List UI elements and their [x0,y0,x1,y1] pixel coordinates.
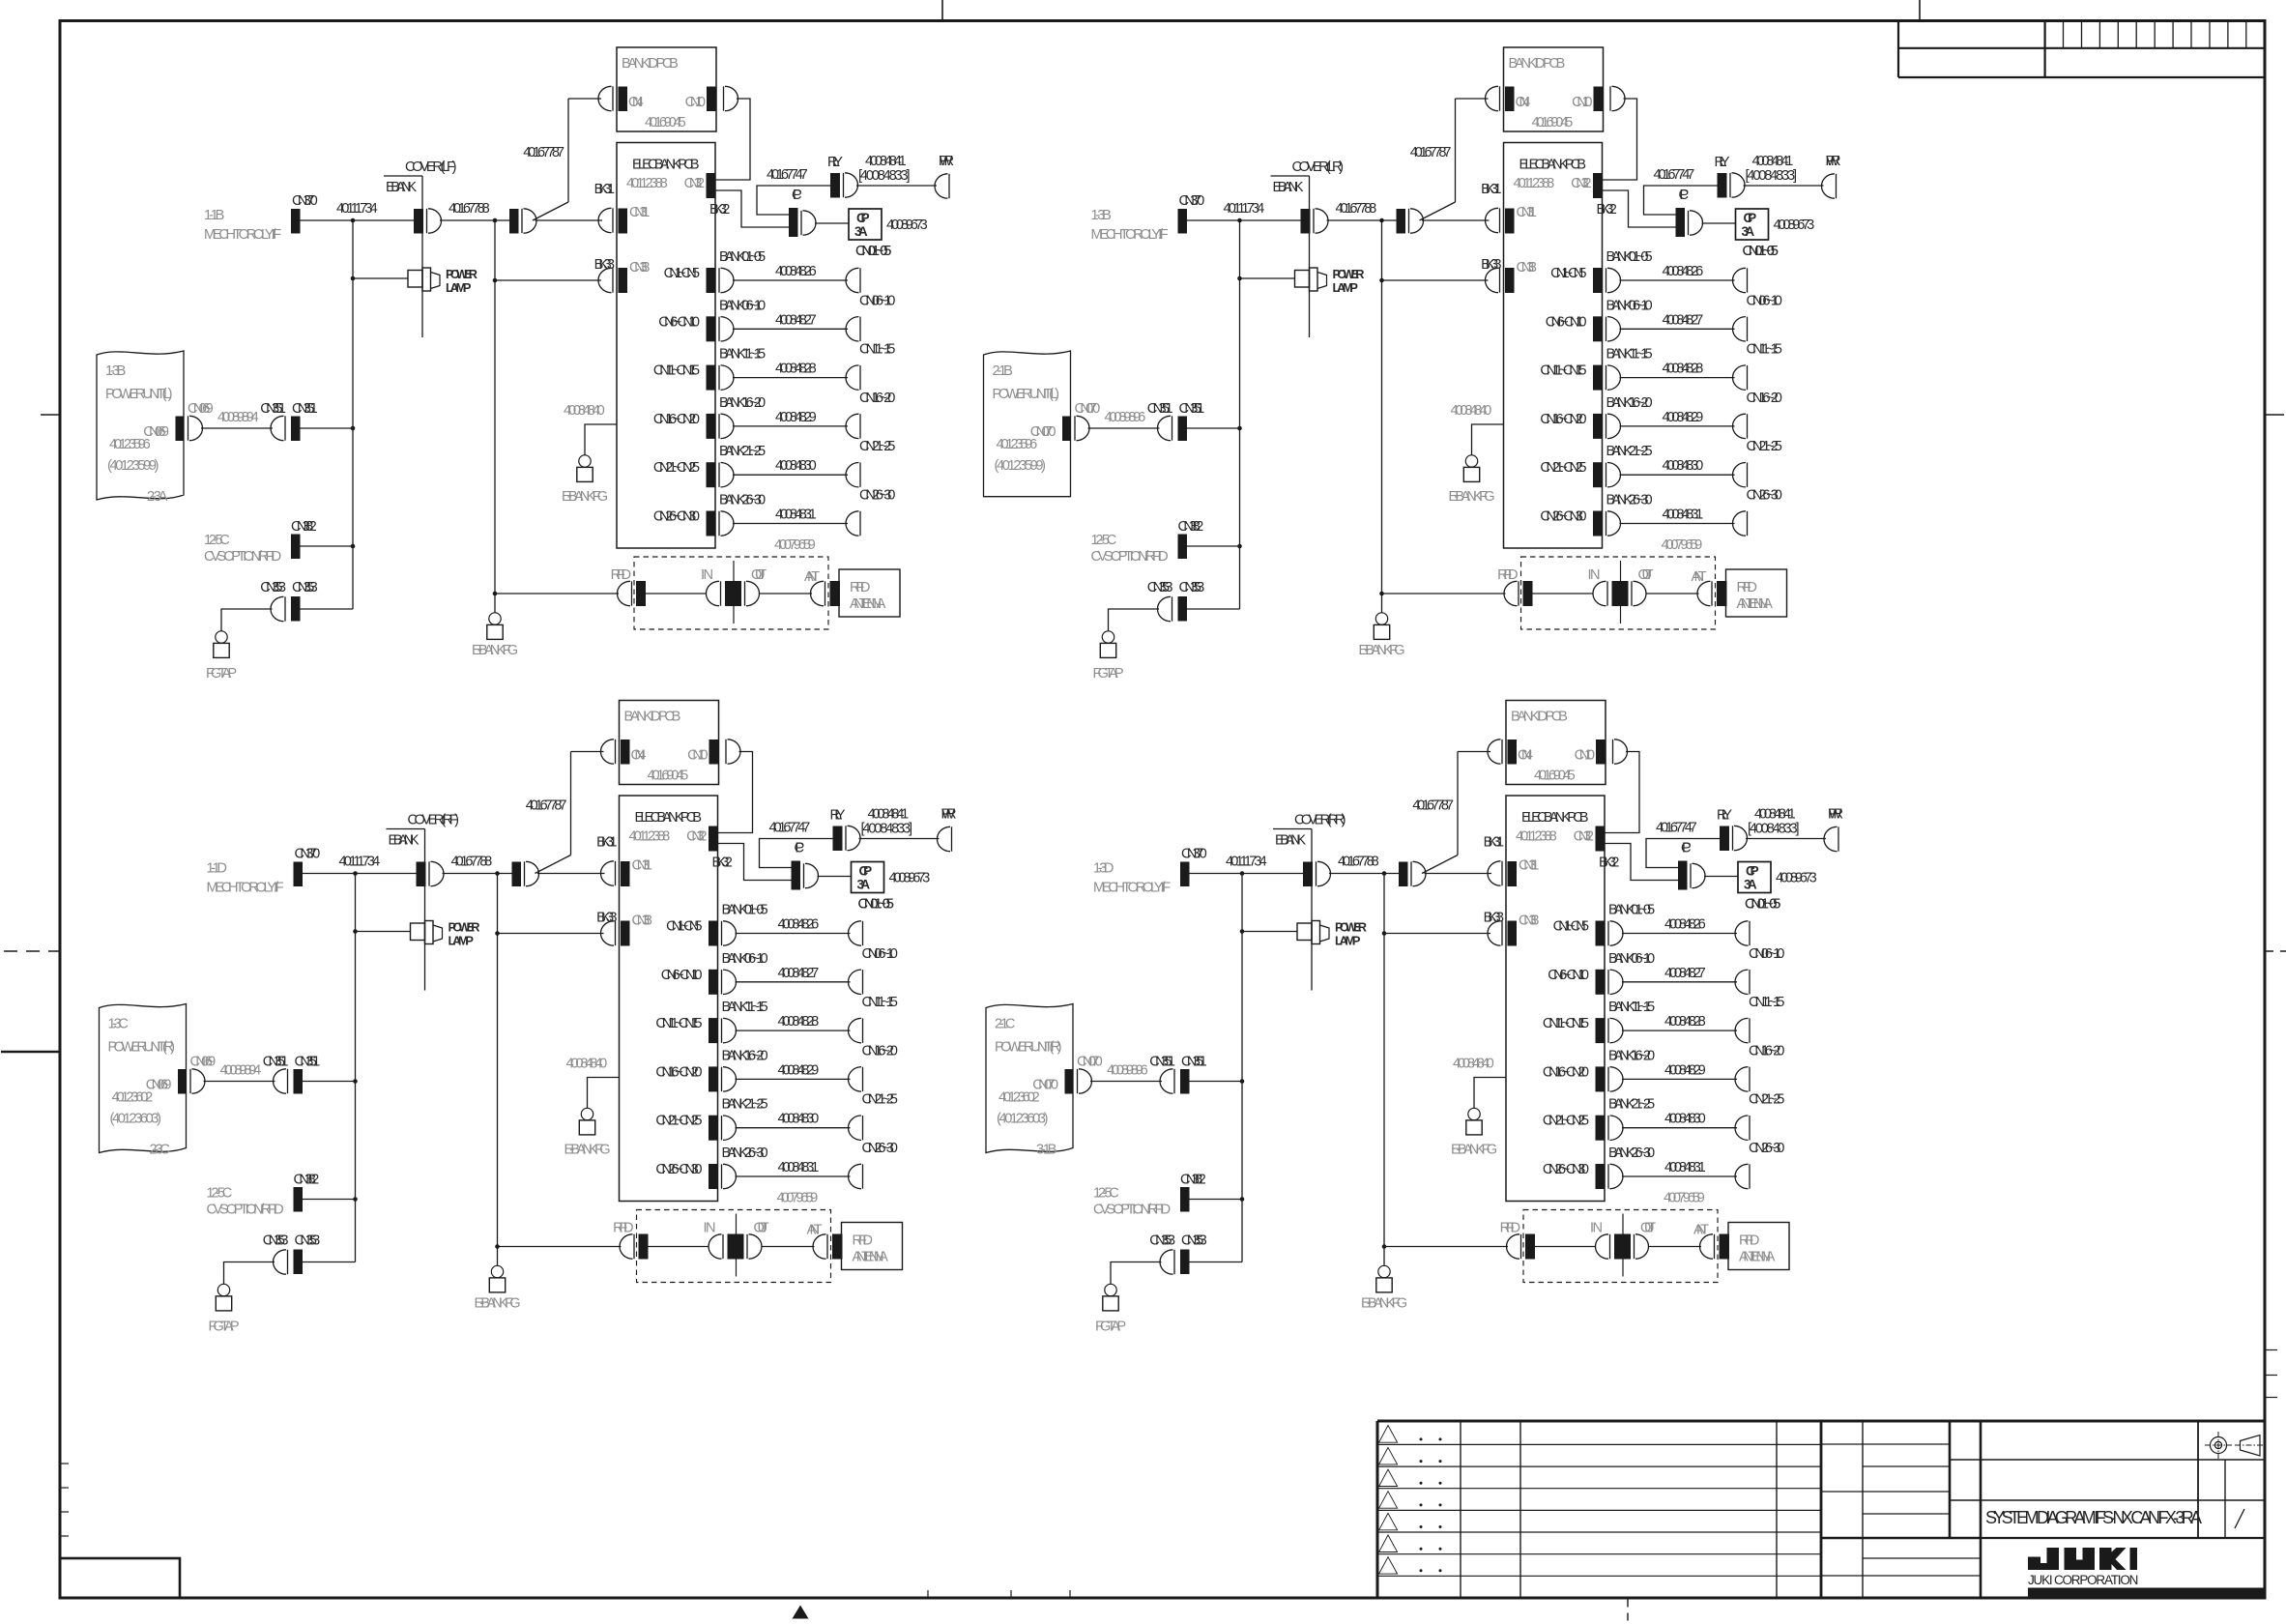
RFID unit dashed box (RR) [1523,1210,1718,1283]
wire CP to CP3A box (RR) [1704,876,1738,878]
wire trunk B to RFID (LR) [1382,593,1506,594]
junction node on trunk A (LF) [351,218,356,223]
wire OUT to ANT (RF) [762,1246,815,1248]
svg-text:40167788: 40167788 [451,855,493,870]
wire CN351 to trunk (RR) [1190,1081,1243,1083]
relay connector RLY (LF) [827,155,857,198]
svg-text:MECH TOROLY I/F: MECH TOROLY I/F [204,227,281,243]
svg-text:CN353: CN353 [1181,1233,1207,1249]
svg-text:CN351: CN351 [1181,1055,1207,1070]
junction node RFID tee (RR) [1382,1244,1387,1249]
connector pair on cover line (LR) [1301,209,1329,234]
connector CN01~05 mating (LR) [1733,244,1779,293]
svg-text:BK32: BK32 [709,202,730,217]
svg-text:BANK01~05: BANK01~05 [722,903,768,918]
wire cover to BK pair, cable 40167788 (RR) [1329,855,1399,874]
wire to E-BANK FG lower (RR) [1383,1247,1385,1266]
wire CN353 to FG TAP (RF) [224,1262,275,1285]
pin CN16~CN20 of ELEC BANK PCB (LR) [1540,412,1620,439]
svg-text:40084830: 40084830 [1664,1112,1706,1127]
svg-text:40084841: 40084841 [1754,807,1796,823]
junction node on trunk B (RR) [1382,871,1387,876]
svg-text:E-BANK FG: E-BANK FG [474,1296,520,1312]
svg-text:[40084833]: [40084833] [1748,822,1800,837]
revision triangle row 1 [1379,1426,1398,1443]
connector CN16~20 mating (RR) [1735,1043,1784,1091]
connector pair on cover line (LF) [414,209,442,234]
junction node on trunk A (LR) [1237,218,1242,223]
svg-text:CN353: CN353 [1147,580,1173,595]
wire bank cable 40084830 (RF) [736,1112,851,1128]
scale ticks right above title block [2265,1350,2277,1398]
connector CN26~30 mating (LR) [1733,488,1782,536]
wire BK31 to CN31 (LR) [1422,219,1490,221]
svg-text:POWER UNIT(L): POWER UNIT(L) [993,387,1060,402]
svg-text:CN1~CN5: CN1~CN5 [664,266,700,281]
wire diagonal and vertical to BANK ID CN4, cable 40167787 (LF) [523,99,601,220]
svg-text:CN33: CN33 [1519,913,1539,929]
svg-text:CN11~15: CN11~15 [1749,995,1784,1010]
junction node on trunk B (RF) [495,871,500,876]
pin CN32 of ELEC BANK PCB (RF) [686,826,718,852]
svg-text:BANK16~20: BANK16~20 [1608,1048,1655,1063]
connector CN351 (RR) [1149,1055,1207,1094]
svg-text:CN353: CN353 [260,580,286,595]
pin CN070 of power unit (LR) [1062,401,1100,441]
wire bank cable 40084831 (LR) [1620,507,1735,524]
revision table grid [1377,1421,1821,1598]
label CVS option 12-5C (RF) [207,1186,284,1218]
scale ticks left bottom [61,1464,69,1536]
junction node power lamp tee (RR) [1240,929,1245,934]
svg-text:12-5C: 12-5C [204,533,230,548]
svg-text:CP: CP [792,188,802,203]
svg-text:40089673: 40089673 [886,217,928,233]
svg-text:1-1D: 1-1D [207,861,227,877]
wire bank cable 40084831 (LF) [733,507,848,524]
pin CN11~CN15 of ELEC BANK PCB (RR) [1543,1016,1623,1043]
svg-text:ELEC BANK PCB: ELEC BANK PCB [1521,810,1589,826]
pin CN33 of ELEC BANK PCB (LF) [598,260,650,293]
svg-text:40084831: 40084831 [1663,507,1704,523]
svg-text:CN351: CN351 [292,401,318,417]
svg-text:POWER UNIT(L): POWER UNIT(L) [105,387,173,402]
wire CN32 to CP (LR) [1603,190,1676,227]
svg-text:COVER (RF): COVER (RF) [408,813,460,828]
relay connector RLY (RR) [1717,808,1748,852]
wire RLY to CP junction (LR) [1644,167,1718,215]
connector PWR (LR) [1822,154,1841,198]
RFID reader antenna element (LR) [1612,561,1629,623]
svg-text:40089673: 40089673 [1774,217,1815,233]
svg-text:CN069: CN069 [188,401,214,417]
pin CN1~CN5 of ELEC BANK PCB (RR) [1553,919,1623,946]
svg-text:CN10: CN10 [1575,748,1595,764]
wire bank cable 40084828 (RR) [1622,1014,1737,1030]
svg-text:CP: CP [1679,188,1690,203]
relay connector RLY (LR) [1715,155,1745,198]
svg-text:CN11~CN15: CN11~CN15 [655,1016,702,1031]
wire bank cable 40084829 (RR) [1622,1062,1737,1079]
junction node BK33 tee (RF) [495,931,500,936]
junction node on trunk A (RF) [353,871,358,876]
power unit box 2-1C POWER UNIT(R) (RR) [986,1004,1073,1158]
svg-text:E-BANK FG: E-BANK FG [564,1143,610,1158]
RFID reader antenna element (RR) [1614,1214,1631,1277]
pin CN10 of BANK ID PCB (LF) [685,86,738,111]
svg-text:40079659: 40079659 [774,537,816,553]
svg-text:40084841: 40084841 [868,807,910,823]
pin CN6~CN10 of ELEC BANK PCB (LR) [1546,314,1621,341]
svg-text:BANK01~05: BANK01~05 [1606,249,1653,265]
pin CN11~CN15 of ELEC BANK PCB (LF) [653,363,734,391]
RFID ANTENNA box (LF) [839,569,900,617]
connector CN01~05 mating (RF) [848,897,893,946]
connector ANT (LF) [804,569,840,606]
svg-text:40167788: 40167788 [1338,855,1379,870]
svg-text:40084830: 40084830 [1663,458,1704,474]
wire CN32 to CP (LF) [715,190,789,227]
junction node CN382 tee (LR) [1237,544,1242,549]
svg-text:40084829: 40084829 [778,1062,820,1078]
pin CN31 of ELEC BANK PCB (RF) [601,858,652,887]
connector OUT (LR) [1632,567,1654,606]
revision triangle row 2 [1379,1447,1398,1464]
wire RLY to PWR, cable 40084841 [40084833] (RR) [1746,807,1826,839]
svg-text:POWER: POWER [449,920,480,935]
RFID ANTENNA box (LR) [1726,569,1787,617]
svg-text:BANK ID PCB: BANK ID PCB [1509,56,1566,72]
wire RFID to IN (LF) [646,593,707,594]
wire CP to CP3A box (LF) [815,222,849,224]
pin CN069 of power unit (LF) [176,401,214,441]
junction node CN351 tee (LR) [1237,426,1242,431]
connector RFID (LF) [611,567,646,606]
svg-text:BANK01~05: BANK01~05 [719,249,766,265]
svg-text:CN33: CN33 [629,260,650,275]
junction node RFID tee (LF) [493,592,498,596]
svg-text:CN351: CN351 [263,1055,289,1070]
pin CN32 of ELEC BANK PCB (RR) [1574,826,1606,852]
svg-text:40084830: 40084830 [778,1112,820,1127]
wire trunk B to RFID (RR) [1384,1246,1508,1248]
svg-text:1-3B: 1-3B [105,363,126,379]
pin CN10 of BANK ID PCB (LR) [1572,86,1625,111]
wire CP to CP3A box (RF) [818,876,852,878]
svg-text:40084827: 40084827 [778,966,820,981]
svg-text:12-5C: 12-5C [207,1186,233,1202]
svg-text:2-1B: 2-1B [993,363,1013,379]
ground symbol FG TAP (LR) [1102,631,1114,643]
label CVS option 12-5C (RR) [1093,1186,1171,1218]
connector CN26~30 mating (LF) [846,488,895,536]
connector BK33 harness (LR) [1481,257,1501,273]
pin CN4 of BANK ID PCB (LF) [598,86,644,111]
wire RFID to IN (RF) [649,1246,709,1248]
svg-text:BK33: BK33 [594,257,615,273]
svg-text:12-5C: 12-5C [1093,1186,1119,1202]
svg-text:40084827: 40084827 [1663,312,1704,328]
wire CN353 to trunk (RR) [1190,1261,1243,1263]
svg-text:40084840: 40084840 [1453,1057,1494,1072]
wire CN351 to trunk (LF) [301,427,354,429]
svg-text:ELEC BANK PCB: ELEC BANK PCB [1519,158,1587,173]
svg-text:BANK26~30: BANK26~30 [1608,1145,1655,1161]
wire CN32 to CP (RF) [718,844,792,881]
svg-text:CN4: CN4 [1518,748,1533,764]
svg-text:CVS OPTION/RFID: CVS OPTION/RFID [1093,1203,1171,1218]
wire BK33 to CN33 (RR) [1384,933,1490,935]
connector OUT (LF) [745,567,767,606]
connector BK31 harness pair (RF) [512,835,618,887]
svg-text:CN26~30: CN26~30 [1749,1141,1784,1156]
circuit protector box CP 3A 40089673 (LF) [849,209,928,240]
connector CP (LR) [1676,188,1703,237]
revision date dots row 2 [1420,1460,1442,1463]
ground symbol E-BANK FG upper (RR) [1468,1108,1480,1119]
svg-text:40084831: 40084831 [1664,1160,1706,1175]
cover boundary line and E BANK label COVER (LF) (LF) [384,159,457,337]
wire diagonal and vertical to BANK ID CN4, cable 40167787 (RF) [526,752,604,874]
svg-text:CN11~15: CN11~15 [862,995,898,1010]
svg-text:40084827: 40084827 [775,312,817,328]
svg-text:CN16~20: CN16~20 [1749,1043,1784,1058]
RFID unit dashed box (LF) [634,557,828,629]
svg-text:40112388: 40112388 [629,829,671,845]
revision date dots row 5 [1420,1525,1442,1528]
svg-text:CP: CP [795,841,805,856]
svg-text:POWER UNIT(R): POWER UNIT(R) [995,1040,1062,1056]
trunk wire A vertical (RR) [1241,874,1243,1262]
wire to E-BANK FG lower (LF) [494,594,496,613]
svg-text:E-BANK FG: E-BANK FG [472,643,518,658]
connector CN370 (LR) [1178,193,1205,234]
svg-text:40089896: 40089896 [1105,410,1146,425]
svg-text:(40123599): (40123599) [107,458,159,474]
svg-text:CN10: CN10 [1572,95,1592,110]
svg-text:CN26~30: CN26~30 [862,1141,898,1156]
wire CN353 to FG TAP (RR) [1111,1262,1162,1285]
connector CN382 (LF) [291,519,317,559]
trunk wire B vertical (RF) [497,874,499,1247]
svg-text:40084829: 40084829 [775,410,817,425]
pin CN26~CN30 of ELEC BANK PCB (LF) [653,509,734,536]
connector BK33 harness (RF) [596,911,617,926]
pin CN070 of power unit (RR) [1065,1055,1103,1094]
svg-text:CN26~30: CN26~30 [859,488,895,504]
svg-text:ANTENNA: ANTENNA [1737,596,1774,612]
pin CN26~CN30 of ELEC BANK PCB (RR) [1543,1162,1623,1189]
connector CN01~05 mating (RR) [1735,897,1780,946]
svg-text:RFID: RFID [613,1221,633,1236]
wire power unit cable 40089894 (RF) [204,1063,275,1082]
ELEC BANK PCB box 40112388 (LF) [617,143,715,549]
connector CP (LF) [789,188,816,237]
RFID ANTENNA box (RF) [842,1223,903,1270]
svg-text:CN21~25: CN21~25 [859,439,895,454]
ground symbol FG TAP (RF) [217,1284,229,1295]
wire CN382 to trunk (RF) [303,1199,356,1201]
svg-text:E-BANK FG: E-BANK FG [1448,489,1494,505]
svg-text:1-3B: 1-3B [1091,208,1112,223]
svg-text:CN32: CN32 [1574,829,1594,845]
pin CN4 of BANK ID PCB (LR) [1486,86,1531,111]
svg-text:CP: CP [1681,841,1692,856]
wire FG 40084840 (LR) [1451,403,1504,455]
wire CN10 to CN32 (LF) [715,99,750,180]
wire cover to BK pair, cable 40167788 (LR) [1327,201,1397,220]
wire OUT to ANT (RR) [1648,1246,1701,1248]
svg-text:CN382: CN382 [294,1173,320,1188]
wire RLY to PWR, cable 40084841 [40084833] (RF) [859,807,940,839]
svg-text:BANK ID PCB: BANK ID PCB [624,710,681,725]
relay connector RLY (RF) [830,808,860,852]
svg-text:40167747: 40167747 [767,167,808,183]
svg-text:RLY: RLY [827,155,843,170]
svg-text:[40084833]: [40084833] [1746,168,1798,184]
svg-text:BANK16~20: BANK16~20 [722,1048,768,1063]
pin CN10 of BANK ID PCB (RF) [687,739,740,765]
svg-text:40167747: 40167747 [1654,167,1695,183]
svg-text:40084829: 40084829 [1663,410,1704,425]
connector IN (LF) [701,567,721,606]
pin CN1~CN5 of ELEC BANK PCB (LR) [1550,266,1620,293]
connector PWR (RF) [938,807,957,852]
svg-text:40112388: 40112388 [626,176,668,191]
svg-text:CN26~CN30: CN26~CN30 [1543,1162,1589,1177]
connector CN370 (RF) [294,847,321,887]
connector CN353 (LR) [1147,580,1205,622]
pin CN21~CN25 of ELEC BANK PCB (LR) [1540,460,1620,487]
svg-text:BK32: BK32 [712,855,733,871]
svg-text:BK33: BK33 [596,911,617,926]
svg-text:CN31: CN31 [1517,205,1537,220]
pin CN4 of BANK ID PCB (RR) [1488,739,1533,765]
svg-text:CN21~25: CN21~25 [1749,1092,1784,1108]
svg-text:CN4: CN4 [1516,95,1531,110]
svg-text:BANK21~25: BANK21~25 [1606,444,1653,459]
svg-text:POWER: POWER [446,267,477,281]
svg-text:RFID: RFID [1497,567,1518,583]
svg-text:40084828: 40084828 [1663,362,1704,377]
RFID ANTENNA box (RR) [1728,1223,1789,1270]
junction node BK33 tee (LF) [493,278,498,283]
svg-text:SYSTEM DIAGRAM IFS-NX CAN FX-3: SYSTEM DIAGRAM IFS-NX CAN FX-3RA [1985,1508,2202,1527]
fold dashed mark bottom centre [1627,1600,1629,1624]
svg-text:(40123603): (40123603) [997,1112,1049,1127]
svg-text:BANK11~15: BANK11~15 [719,347,766,362]
svg-text:CN351: CN351 [260,401,286,417]
svg-text:40112388: 40112388 [1514,176,1555,191]
svg-text:BANK11~15: BANK11~15 [1608,1000,1655,1015]
pin CN21~CN25 of ELEC BANK PCB (RR) [1543,1114,1623,1141]
wire bank cable 40084830 (LF) [733,458,848,475]
svg-text:CN21~CN25: CN21~CN25 [653,460,700,476]
svg-text:CN32: CN32 [686,829,707,845]
wire bank cable 40084828 (LF) [733,362,848,378]
connector BK33 harness (RR) [1484,911,1504,926]
svg-text:CN06~10: CN06~10 [862,946,898,962]
svg-text:2-1C: 2-1C [995,1017,1015,1032]
svg-text:LAMP: LAMP [1333,280,1359,295]
connector CN26~30 mating (RR) [1735,1141,1784,1189]
svg-text:CN21~25: CN21~25 [862,1092,898,1108]
svg-text:CN382: CN382 [291,519,317,535]
wire RLY to CP junction (LF) [757,167,830,215]
svg-text:CN1~CN5: CN1~CN5 [1553,919,1589,935]
pin CN10 of BANK ID PCB (RR) [1575,739,1628,765]
trunk wire A vertical (LR) [1239,220,1241,609]
RFID unit dashed box (RF) [637,1210,831,1283]
svg-text:40089673: 40089673 [889,871,931,886]
svg-text:40084828: 40084828 [775,362,817,377]
svg-text:40084828: 40084828 [778,1014,820,1029]
svg-text:40167747: 40167747 [769,821,811,836]
svg-text:CN16~CN20: CN16~CN20 [653,412,700,427]
svg-text:40111734: 40111734 [1224,201,1265,217]
svg-text:CN06~10: CN06~10 [1747,293,1782,308]
wire OUT to ANT (LF) [759,593,812,594]
fold tick top left [941,0,943,21]
ground symbol E-BANK FG lower (LF) [489,613,501,624]
wire CN370 to cover connector, cable 40111734 (LR) [1187,201,1301,220]
connector OUT (RF) [747,1221,769,1260]
svg-text:BANK06~10: BANK06~10 [1608,951,1655,967]
junction node CN382 tee (LF) [351,544,356,549]
connector CN16~20 mating (LR) [1733,391,1782,439]
svg-text:CVS OPTION/RFID: CVS OPTION/RFID [204,549,281,565]
ground symbol E-BANK FG upper (LF) [579,455,591,467]
connector ANT (LR) [1692,569,1727,606]
wire CN351 to trunk (RF) [303,1081,356,1083]
svg-text:IN: IN [1590,1221,1603,1236]
svg-text:CN16~CN20: CN16~CN20 [1543,1064,1589,1080]
pin CN21~CN25 of ELEC BANK PCB (LF) [653,460,734,487]
svg-text:CN353: CN353 [263,1233,289,1249]
revision triangle row 3 [1379,1469,1398,1486]
power lamp symbol (LF) [408,267,477,295]
wire power unit cable 40089896 (RR) [1090,1063,1162,1082]
wire to E-BANK FG lower (LR) [1381,594,1383,613]
connector RFID (RF) [613,1221,648,1260]
label mech toroly interface 1-1B (LF) [204,208,281,243]
svg-text:CN382: CN382 [1180,1173,1206,1188]
pin CN6~CN10 of ELEC BANK PCB (LF) [658,314,734,341]
svg-text:BANK21~25: BANK21~25 [722,1097,768,1113]
connector CN11~15 mating (RF) [848,995,897,1043]
svg-text:40084826: 40084826 [775,264,817,279]
svg-text:3A: 3A [854,224,868,239]
ground symbol E-BANK FG lower (RF) [491,1265,503,1277]
wire BK33 to CN33 (LF) [495,279,601,281]
wire CN370 to cover connector, cable 40111734 (RF) [303,855,417,874]
svg-text:E-BANK FG: E-BANK FG [562,489,608,505]
connector CN21~25 mating (RF) [848,1092,897,1141]
wire BK31 to CN31 (RF) [537,873,605,875]
svg-text:40084840: 40084840 [564,403,605,419]
svg-text:CN21~CN25: CN21~CN25 [1540,460,1586,476]
svg-text:OUT: OUT [751,567,767,583]
svg-text:40084831: 40084831 [775,507,817,523]
wire BK31 to CN31 (RR) [1425,873,1492,875]
svg-text:CN33: CN33 [1517,260,1537,275]
wire FG 40084840 (LF) [564,403,617,455]
svg-text:BANK ID PCB: BANK ID PCB [622,56,679,72]
svg-text:POWER: POWER [1335,920,1367,935]
svg-text:CN11~CN15: CN11~CN15 [653,363,700,379]
connector CP (RF) [792,841,819,890]
svg-text:CP: CP [859,864,873,879]
